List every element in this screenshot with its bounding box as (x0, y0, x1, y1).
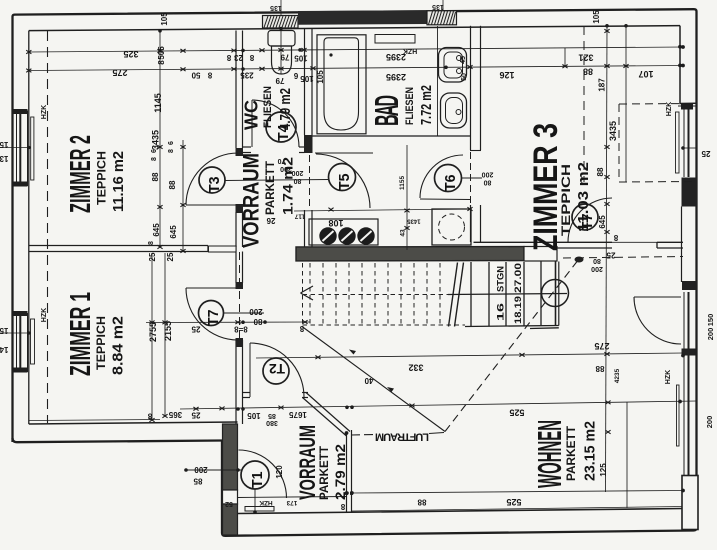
svg-text:HZK: HZK (259, 499, 273, 506)
svg-text:85: 85 (193, 477, 202, 486)
svg-text:645: 645 (169, 225, 178, 239)
wohnen bottom wall second inner line (352, 507, 683, 512)
door label T6 (435, 165, 462, 192)
right window zimmer3 (676, 105, 693, 178)
svg-text:4235: 4235 (614, 368, 621, 383)
svg-text:T6: T6 (443, 175, 459, 192)
svg-text:150: 150 (706, 314, 715, 327)
svg-text:8: 8 (168, 149, 175, 153)
svg-text:365: 365 (168, 410, 182, 419)
wall end dots vestibule east (345, 492, 348, 495)
washing machine (432, 209, 471, 245)
svg-text:T1: T1 (250, 472, 266, 489)
svg-text:105: 105 (300, 74, 314, 83)
svg-text:1145: 1145 (153, 93, 163, 113)
svg-text:7.72 m2: 7.72 m2 (417, 85, 434, 125)
vestibule east wall (347, 430, 352, 513)
svg-text:1675: 1675 (289, 410, 307, 419)
svg-text:88: 88 (151, 172, 160, 181)
svg-text:135: 135 (432, 3, 444, 10)
svg-text:FLIESEN: FLIESEN (262, 86, 275, 128)
svg-text:25: 25 (606, 251, 615, 260)
svg-text:105: 105 (592, 10, 601, 24)
svg-text:27.00: 27.00 (513, 263, 523, 293)
svg-text:126: 126 (499, 70, 514, 80)
svg-text:125: 125 (599, 463, 608, 477)
svg-text:STGN: STGN (496, 266, 506, 292)
tick crosses (26, 29, 628, 434)
room label ZIMMER 1 (65, 292, 126, 376)
dim vertical x565 short (564, 48, 566, 67)
door label T2 (263, 358, 289, 384)
svg-text:LUFTRAUM: LUFTRAUM (375, 431, 429, 443)
stair break line (449, 263, 464, 327)
svg-text:107: 107 (638, 69, 653, 79)
left window zimmer2 (14, 110, 34, 187)
svg-text:88: 88 (596, 167, 605, 176)
svg-text:200: 200 (194, 465, 208, 474)
dim vertical x627 lower (626, 402, 628, 508)
svg-text:25: 25 (166, 252, 175, 261)
wall stub right of T6 (470, 150, 481, 152)
right wall black pier 2 (682, 281, 697, 290)
door label T7 right (572, 204, 598, 230)
wall zimmer2/zimmer1 (29, 246, 236, 252)
burner 1 (319, 227, 336, 244)
BAD/zimmer3 wall (471, 26, 481, 242)
svg-text:25: 25 (191, 325, 200, 334)
bottom-right corner pier (682, 476, 698, 530)
svg-text:525: 525 (506, 497, 521, 507)
svg-text:VORRAUM: VORRAUM (239, 153, 264, 248)
svg-text:85: 85 (268, 412, 276, 419)
dim line A horizontal top (29, 47, 683, 52)
sink 1 (439, 48, 467, 83)
svg-text:43: 43 (400, 229, 407, 237)
svg-text:ZIMMER 2: ZIMMER 2 (65, 135, 97, 213)
door jambs T7 left (236, 282, 244, 289)
dim line window left z1 (0, 332, 29, 334)
svg-text:1.74 m2: 1.74 m2 (280, 157, 295, 215)
door label T5 (329, 164, 356, 191)
svg-text:79: 79 (280, 53, 289, 62)
stair newel circle (542, 280, 569, 307)
svg-text:16: 16 (496, 303, 506, 321)
dashed door zone T6 (470, 152, 472, 204)
dim line B horizontal top second (29, 66, 683, 71)
svg-text:25: 25 (191, 411, 200, 420)
svg-text:88: 88 (168, 180, 177, 189)
svg-text:18.19: 18.19 (513, 296, 523, 324)
stair arrow (301, 286, 314, 300)
door jambs T3 (236, 148, 244, 156)
svg-text:15: 15 (0, 140, 8, 149)
svg-text:8: 8 (207, 71, 212, 80)
dashed line hall x240 (239, 252, 241, 339)
svg-text:TEPPICH: TEPPICH (96, 151, 109, 205)
svg-text:52: 52 (225, 500, 233, 507)
sink 2 (441, 93, 467, 128)
walk line arrow tick 2 (387, 387, 394, 392)
svg-text:105: 105 (247, 411, 261, 420)
svg-text:120: 120 (275, 465, 284, 479)
svg-text:3435: 3435 (151, 130, 161, 150)
radiator vestibule (245, 507, 274, 512)
dim vertical x160 (159, 31, 161, 248)
dim vertical x607 (606, 26, 608, 493)
room label BAD (367, 85, 434, 126)
leader T7 left (223, 312, 264, 314)
svg-text:8: 8 (157, 60, 166, 65)
svg-text:505: 505 (157, 46, 166, 60)
svg-text:8: 8 (226, 53, 231, 62)
svg-text:8: 8 (249, 53, 254, 62)
long dashed installation line left (47, 31, 49, 423)
svg-text:WOHNEN: WOHNEN (531, 420, 569, 488)
svg-text:6: 6 (293, 71, 298, 80)
stair walk diagonal dimension line (302, 327, 445, 432)
dim leader above chimney1 (280, 0, 282, 15)
svg-text:80: 80 (253, 317, 262, 326)
svg-text:TEPPICH: TEPPICH (560, 164, 573, 236)
right wall black pier 1 (682, 178, 698, 207)
svg-text:11.03 m2: 11.03 m2 (575, 162, 592, 232)
dashed roofline zimmer3 (583, 26, 585, 182)
door arc T4 (252, 100, 299, 147)
burner 3 (357, 227, 374, 244)
svg-text:PARKETT: PARKETT (265, 161, 278, 215)
svg-text:PARKETT: PARKETT (319, 446, 332, 500)
svg-text:6: 6 (168, 141, 175, 145)
dim vertical kitchen x407 (406, 145, 408, 250)
dim vertical x626 (625, 26, 627, 183)
door arc T7 left (186, 288, 238, 340)
svg-text:50: 50 (191, 71, 200, 80)
toilet (268, 31, 295, 75)
room label WC (242, 86, 294, 130)
black wall segment between chimneys (298, 10, 427, 25)
dashed door zone T5 (309, 155, 311, 209)
svg-text:135: 135 (270, 4, 282, 11)
dim line H y322 (146, 321, 310, 324)
svg-text:TEPPICH: TEPPICH (96, 316, 109, 370)
leader T6 (461, 177, 482, 179)
dim vertical x152 (151, 253, 153, 420)
dashed HZK recess rect zimmer3 (619, 104, 694, 183)
svg-text:HZK: HZK (41, 105, 48, 119)
svg-text:187: 187 (598, 78, 607, 92)
upper flight dashed treads (303, 263, 466, 325)
right window wohnen lower (677, 356, 689, 476)
svg-text:HZK: HZK (666, 102, 673, 116)
svg-text:2.79 m2: 2.79 m2 (333, 444, 349, 500)
svg-text:105: 105 (160, 12, 169, 26)
walk line arrow tick 1 (349, 350, 356, 355)
svg-text:80: 80 (484, 179, 492, 186)
svg-text:8.84 m2: 8.84 m2 (109, 316, 126, 375)
black jamb WC/kitchen wall (304, 135, 313, 153)
hall upper south wall (T2 wall) (243, 393, 309, 398)
svg-text:23.15 m2: 23.15 m2 (581, 421, 598, 481)
svg-text:50: 50 (461, 73, 468, 81)
door leaf wohnen terrace (634, 296, 681, 298)
door leaf T7 left (186, 287, 236, 289)
svg-text:T5: T5 (337, 174, 353, 191)
svg-text:88: 88 (417, 498, 426, 507)
svg-text:173: 173 (286, 499, 297, 506)
vertical leader under T1 (254, 489, 256, 512)
svg-text:200: 200 (482, 171, 494, 178)
zimmer1 bottom inner second line (29, 420, 160, 421)
svg-text:WC: WC (242, 100, 262, 130)
right wall band between piers (681, 207, 683, 283)
WC east / kitchen west wall (305, 28, 313, 248)
svg-text:13: 13 (0, 154, 8, 163)
svg-text:2755: 2755 (148, 322, 158, 342)
svg-text:4.79 m2: 4.79 m2 (277, 88, 294, 130)
svg-text:8=8: 8=8 (234, 325, 248, 334)
svg-text:88: 88 (583, 67, 593, 77)
svg-text:79: 79 (275, 76, 284, 85)
right wall inner face (top part) (680, 26, 697, 104)
svg-text:VORRAUM: VORRAUM (296, 425, 320, 500)
svg-text:275: 275 (594, 341, 609, 351)
svg-text:25: 25 (701, 149, 710, 158)
svg-text:8: 8 (151, 157, 158, 161)
svg-text:40: 40 (364, 376, 373, 385)
door header line T5 (315, 152, 373, 154)
door arc T6 (420, 155, 463, 198)
svg-text:645: 645 (598, 215, 607, 229)
door label T3 (199, 167, 225, 193)
kitchen south wall dark band (296, 247, 524, 261)
svg-text:HZK: HZK (403, 47, 417, 54)
svg-text:26: 26 (266, 216, 275, 225)
door arc wohnen terrace (634, 297, 681, 344)
dim line right window z3 (683, 147, 697, 149)
svg-text:1435: 1435 (407, 218, 421, 224)
svg-text:235: 235 (240, 71, 254, 80)
stair top wall white band (524, 247, 557, 262)
svg-text:PARKETT: PARKETT (566, 426, 579, 481)
svg-text:2395: 2395 (386, 72, 406, 82)
door label T4 (266, 112, 296, 142)
svg-text:15: 15 (0, 326, 8, 335)
wall zimmer1-east (236, 252, 243, 425)
door base line T6 (420, 198, 470, 201)
right wall sill line at step (678, 105, 697, 107)
stairs solid treads (448, 262, 567, 329)
zimmer1 bottom outer wall (13, 438, 223, 442)
door label T1 (241, 461, 269, 489)
door leaf T2 (249, 343, 251, 397)
small symbol at stair top right (575, 257, 584, 263)
right window/door wohnen upper (684, 292, 689, 349)
svg-text:105: 105 (316, 70, 325, 84)
room label ZIMMER 2 (65, 135, 126, 213)
svg-text:2155: 2155 (163, 321, 173, 341)
svg-text:14: 14 (0, 345, 8, 354)
luftraum dash right (429, 433, 444, 434)
BAD south wall face (312, 135, 471, 137)
svg-text:HZK: HZK (665, 370, 672, 384)
door arc T5 (316, 154, 370, 208)
door arc T1 (239, 450, 287, 498)
svg-text:105: 105 (294, 54, 308, 63)
left window zimmer1 (14, 312, 35, 373)
door arc T7 right (568, 198, 612, 242)
chimney 1 (263, 16, 299, 29)
svg-text:T7: T7 (206, 310, 222, 327)
svg-text:321: 321 (578, 53, 593, 63)
svg-text:8: 8 (148, 241, 155, 245)
svg-text:T2: T2 (269, 361, 285, 377)
door arc T3 (186, 153, 238, 205)
wohnen / vestibule bottom inner face (238, 509, 683, 514)
jamb T2 (236, 340, 243, 347)
room label VORRAUM lower (296, 425, 348, 500)
svg-text:80: 80 (593, 257, 601, 264)
luftraum dashed diagonal (445, 262, 577, 432)
svg-text:88: 88 (595, 364, 604, 373)
svg-text:11.16 m2: 11.16 m2 (110, 151, 127, 212)
room label ZIMMER 3 (528, 123, 592, 251)
room label WOHNEN (531, 420, 598, 488)
luftraum dash left (351, 434, 374, 437)
svg-text:332: 332 (408, 363, 423, 373)
WC south wall (243, 147, 305, 153)
room label VORRAUM upper (239, 153, 296, 248)
door leaf T4 (251, 100, 253, 147)
stove (309, 219, 378, 245)
chimney 2 (427, 11, 457, 25)
svg-text:ZIMMER 3: ZIMMER 3 (528, 123, 565, 251)
zimmer1 bottom inner face (29, 422, 238, 424)
svg-text:1155: 1155 (399, 176, 406, 190)
svg-text:25: 25 (148, 252, 157, 261)
svg-text:23: 23 (234, 53, 243, 62)
svg-text:200: 200 (706, 328, 715, 341)
svg-text:8: 8 (147, 412, 152, 421)
shelf in BAD (375, 35, 415, 44)
dim vertical x165 (164, 253, 166, 416)
svg-text:8: 8 (340, 502, 345, 511)
left wall inner face (28, 31, 30, 424)
top wall inner face (29, 26, 680, 31)
svg-text:8: 8 (299, 324, 304, 333)
svg-text:ZIMMER 1: ZIMMER 1 (65, 292, 97, 376)
vestibule west wall dark (223, 424, 238, 490)
svg-text:200: 200 (249, 307, 263, 316)
svg-text:117: 117 (294, 213, 305, 220)
door label T7 left (199, 301, 224, 327)
svg-text:200: 200 (591, 265, 603, 272)
leader T3-T5 (225, 180, 329, 181)
vestibule south wall inner lines (238, 497, 347, 498)
dim line K T1 leader already, vertical x281 WC (280, 28, 282, 74)
dim line I y356 (256, 353, 683, 358)
leader T1 (186, 469, 241, 471)
door arc T2 (250, 343, 304, 397)
zimmer3 south wall (474, 242, 684, 248)
door threshold rect zimmer1 north (209, 246, 237, 252)
dim leader above chimney2 (442, 0, 444, 11)
svg-text:FLIESEN: FLIESEN (404, 87, 417, 125)
svg-text:3435: 3435 (608, 121, 618, 141)
svg-text:380: 380 (266, 419, 278, 426)
svg-text:645: 645 (152, 223, 161, 237)
right wall black pier 3 (682, 349, 696, 356)
svg-text:325: 325 (123, 49, 138, 59)
dim line window left z2 (0, 147, 29, 149)
dim line J y405 (180, 401, 697, 409)
diagonal wall vestibule NE (303, 393, 351, 437)
svg-text:HZK: HZK (41, 308, 48, 322)
svg-text:BAD: BAD (367, 95, 405, 126)
svg-text:6: 6 (151, 149, 158, 153)
dim line kitchen y210 (294, 209, 470, 211)
dim line L y492 (352, 491, 684, 494)
svg-text:525: 525 (509, 408, 524, 418)
svg-text:45: 45 (460, 56, 467, 64)
dashed line above zimmer3 south wall (563, 257, 683, 259)
svg-text:T3: T3 (207, 177, 223, 194)
door leaf T3 (186, 204, 236, 206)
svg-text:275: 275 (112, 68, 127, 78)
svg-text:8: 8 (613, 233, 618, 242)
svg-text:108: 108 (328, 218, 343, 228)
svg-text:200: 200 (705, 416, 714, 429)
burner 2 (338, 227, 355, 244)
bathtub (317, 35, 366, 134)
wall zimmer2-east / vorraum-west (236, 31, 243, 248)
dim vertical x183 (182, 140, 184, 251)
